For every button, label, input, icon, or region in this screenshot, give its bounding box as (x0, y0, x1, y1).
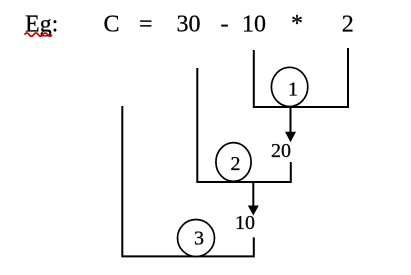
svg-text:10: 10 (242, 12, 266, 38)
svg-text:20: 20 (271, 140, 291, 162)
arrow 2 stem (252, 182, 254, 207)
arrow 2 head (248, 206, 259, 216)
svg-text:3: 3 (194, 228, 204, 250)
svg-text:-: - (221, 12, 229, 38)
svg-text:2: 2 (342, 12, 354, 38)
bracket 2 under 30 and 20 (197, 68, 290, 182)
svg-text:=: = (139, 12, 153, 38)
bracket 1 under 10 * 2 (254, 48, 348, 107)
svg-text:30: 30 (177, 12, 201, 38)
circle 2 (216, 143, 251, 182)
circle 3 (178, 220, 215, 257)
squiggly spellcheck underline under Eg (25, 33, 53, 36)
svg-text:10: 10 (235, 212, 255, 234)
svg-text:Eg:: Eg: (25, 12, 58, 38)
svg-text:1: 1 (288, 78, 298, 100)
arrow 1 head (285, 132, 296, 143)
bracket 3 under C and 10 (122, 106, 254, 256)
svg-text:C: C (104, 12, 120, 38)
svg-text:*: * (291, 11, 303, 37)
arrow 1 stem (290, 107, 292, 134)
svg-text:2: 2 (231, 153, 241, 175)
circle 1 (271, 67, 307, 106)
